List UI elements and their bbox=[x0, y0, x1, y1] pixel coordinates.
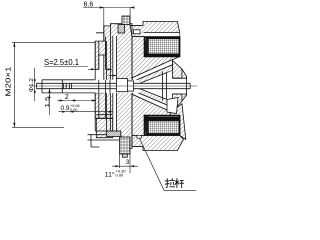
gap ticks in boss bbox=[99, 80, 110, 93]
dim 3 bottom bbox=[119, 154, 121, 168]
rod sleeve bbox=[42, 80, 95, 93]
upper armature cone band hatched bbox=[134, 65, 173, 85]
dim phi1.2 bbox=[34, 68, 36, 101]
lower armature cone band hatched bbox=[134, 87, 173, 107]
collar on rod bbox=[116, 79, 127, 92]
rod step ticks bbox=[64, 83, 72, 88]
leader for label bbox=[140, 139, 197, 191]
dimensions bbox=[12, 6, 196, 190]
right end cap lower bbox=[173, 94, 187, 112]
boss lower hatched bbox=[95, 93, 105, 118]
boss outline upper bbox=[95, 37, 105, 80]
right end cap upper bbox=[173, 61, 187, 79]
housing top hatched band bbox=[130, 22, 180, 37]
svg-text:S=2.5±0.1: S=2.5±0.1 bbox=[44, 57, 79, 67]
coil lead grommet bbox=[137, 135, 142, 138]
plate internal verticals bbox=[107, 26, 113, 135]
lower yoke hatch mass bbox=[132, 94, 180, 135]
plate right edge line bbox=[131, 25, 133, 146]
svg-text:Φ1.2: Φ1.2 bbox=[29, 78, 35, 92]
dim 2 bbox=[57, 100, 96, 102]
svg-text:0.00: 0.00 bbox=[116, 172, 125, 177]
bottom-left steps bbox=[88, 135, 120, 147]
centerline axis bbox=[30, 85, 197, 87]
white notch top bbox=[134, 30, 141, 34]
lower-right sliver to bottom band bbox=[170, 104, 186, 140]
dim 0.9 bbox=[59, 111, 114, 113]
bottom boot white bbox=[167, 98, 178, 114]
boss outline lower bbox=[95, 93, 121, 131]
white gap above coil bbox=[144, 33, 180, 37]
dim M20x1 bbox=[13, 42, 15, 127]
svg-text:3: 3 bbox=[126, 159, 130, 166]
svg-text:0.00: 0.00 bbox=[70, 108, 77, 112]
upper yoke hatch mass (column + wedge above gap cone) bbox=[132, 37, 180, 78]
top small nut bbox=[118, 25, 125, 34]
coil top bbox=[146, 37, 180, 57]
cap slot bbox=[173, 69, 187, 101]
dim S bbox=[44, 66, 88, 68]
verticals right of cone bbox=[163, 72, 167, 101]
white spring column in plate bbox=[113, 36, 117, 80]
flange plate hatched bbox=[104, 24, 132, 149]
top bolt bbox=[122, 16, 130, 25]
dim 6.6 bbox=[83, 7, 134, 9]
label 拉杆 drawn as strokes bbox=[165, 178, 184, 188]
svg-text:11°: 11° bbox=[105, 170, 115, 178]
svg-text:M20×1: M20×1 bbox=[4, 67, 13, 97]
lower air-gap white wedge bbox=[132, 91, 173, 113]
housing bottom hatched band bbox=[132, 136, 184, 151]
white center diamond bbox=[139, 70, 173, 101]
dim 1.5 bbox=[49, 89, 51, 115]
svg-text:2: 2 bbox=[65, 94, 69, 101]
rod nut step box bbox=[127, 81, 133, 91]
coil bottom bbox=[146, 116, 180, 136]
top step structure left of plate bbox=[96, 26, 104, 41]
bottom bolt bbox=[120, 137, 131, 154]
svg-text:6.6: 6.6 bbox=[84, 2, 94, 9]
svg-text:0.9: 0.9 bbox=[61, 105, 70, 112]
upper air-gap white wedge bbox=[132, 60, 173, 82]
bottom nut bbox=[107, 131, 121, 137]
rod channel white bbox=[95, 80, 139, 93]
rod bbox=[37, 83, 191, 88]
svg-text:1.5: 1.5 bbox=[45, 97, 51, 108]
boss upper hatched bbox=[95, 41, 105, 69]
small gap arrow at collar bbox=[109, 75, 117, 77]
